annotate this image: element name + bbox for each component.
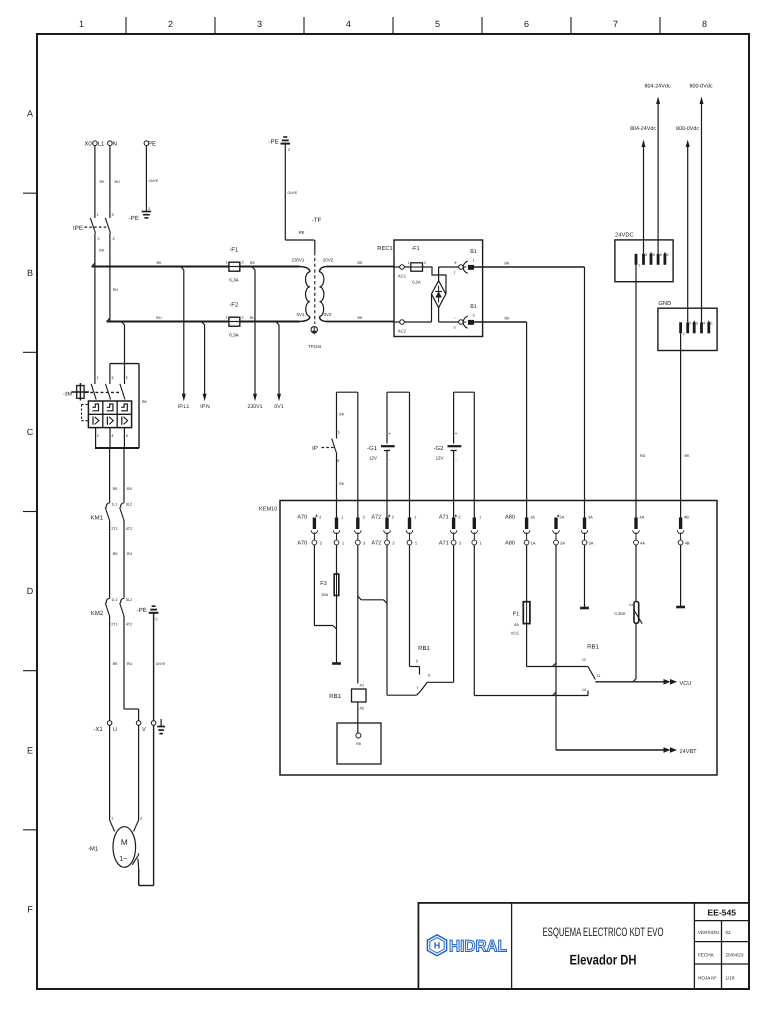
connector 24VDC [615, 232, 673, 282]
wire 24VBT [556, 749, 664, 751]
wire tap IP.N [201, 322, 204, 396]
svg-text:BK: BK [100, 180, 106, 184]
svg-text:20V2: 20V2 [323, 258, 334, 263]
svg-text:RB1: RB1 [587, 644, 599, 651]
svg-text:1L1: 1L1 [111, 598, 117, 602]
wire loop A72 [387, 392, 410, 517]
svg-text:8: 8 [702, 19, 707, 29]
svg-text:1: 1 [683, 332, 685, 336]
svg-text:VCC: VCC [511, 631, 520, 636]
svg-text:4T2: 4T2 [126, 527, 133, 531]
svg-text:+: + [455, 431, 458, 436]
wire AC2 to bridge [404, 294, 431, 322]
svg-text:3: 3 [112, 213, 114, 217]
svg-text:BU: BU [115, 180, 121, 184]
ground -PE (TF shield) [268, 137, 290, 152]
svg-text:-PE: -PE [137, 607, 147, 614]
connector pin A80-3A [581, 515, 594, 546]
relay contact RB1 12-11-14 [582, 644, 600, 693]
svg-text:M: M [121, 838, 128, 847]
svg-text:4: 4 [703, 322, 705, 326]
svg-text:VCU: VCU [680, 681, 692, 687]
svg-text:X0: X0 [84, 141, 92, 148]
breaker blade 1 [91, 384, 96, 400]
label KM2 [91, 610, 104, 617]
wire L1 down from X0 [95, 146, 105, 219]
wire A72-2 to contact 7 [387, 545, 420, 695]
terminal AC2 [394, 320, 407, 334]
wire breaker outputs to bar [95, 428, 139, 448]
svg-text:2: 2 [424, 261, 426, 265]
svg-text:U: U [113, 727, 117, 733]
svg-text:3: 3 [454, 326, 456, 330]
svg-text:IP.N: IP.N [200, 404, 210, 410]
svg-text:BU: BU [127, 552, 133, 556]
svg-text:0V1: 0V1 [274, 404, 283, 410]
fuse -F2 [225, 302, 243, 338]
svg-text:2: 2 [241, 261, 243, 265]
contactor KM1 pole 2 [120, 503, 133, 532]
contactor KM2 pole 1 [105, 598, 118, 627]
svg-text:2T1: 2T1 [111, 623, 118, 627]
svg-text:5: 5 [126, 376, 128, 380]
svg-text:4A: 4A [639, 515, 644, 520]
wire top bus 230V [92, 261, 300, 267]
svg-text:BK: BK [339, 482, 345, 486]
svg-text:KM2: KM2 [91, 610, 104, 617]
connector pin A70-3 [355, 515, 367, 546]
svg-text:02: 02 [726, 930, 732, 935]
svg-text:1: 1 [638, 264, 640, 268]
svg-text:AC1: AC1 [398, 274, 407, 279]
wire N down from X0 [110, 146, 120, 219]
svg-text:1: 1 [454, 271, 456, 275]
svg-text:6,3A: 6,3A [229, 333, 239, 338]
svg-text:804-24Vdc: 804-24Vdc [630, 126, 656, 132]
svg-text:4: 4 [346, 19, 351, 29]
svg-text:3A: 3A [588, 515, 593, 520]
svg-text:H: H [434, 941, 441, 951]
connector A71 labels [439, 515, 449, 547]
svg-text:A71: A71 [439, 541, 449, 547]
wire A71-1 to contact 14 [474, 545, 588, 696]
svg-text:HOJA Nº: HOJA Nº [698, 976, 717, 981]
switch IPE linkage [73, 225, 106, 232]
connector pin A70-2 [311, 514, 323, 545]
wire motor frame to PE [132, 853, 153, 885]
svg-text:VERSION: VERSION [698, 930, 719, 935]
svg-text:5: 5 [666, 253, 668, 257]
field VERSION 02 [698, 930, 731, 935]
terminator bar (3A leg) [580, 607, 589, 610]
terminal -X1 U [93, 721, 117, 733]
svg-text:7: 7 [613, 19, 618, 29]
svg-text:TP104: TP104 [308, 344, 321, 349]
svg-text:5: 5 [156, 618, 158, 622]
svg-text:-M1: -M1 [88, 846, 99, 853]
wire bridge + output [439, 261, 459, 281]
svg-text:RB1: RB1 [418, 645, 430, 652]
svg-text:6: 6 [524, 19, 529, 29]
connector pin A72-2 [384, 514, 396, 545]
wire tap IP.L1 [181, 267, 184, 396]
svg-text:BK: BK [357, 316, 363, 320]
wire secondary 0V2 to REC1 [327, 316, 395, 322]
wire F3 to terminator [336, 596, 338, 664]
svg-text:V: V [142, 727, 146, 733]
wire tap 0V1 [276, 322, 279, 396]
svg-text:1: 1 [225, 316, 227, 320]
svg-text:D: D [27, 586, 34, 596]
svg-text:ESQUEMA ELECTRICO KDT EVO: ESQUEMA ELECTRICO KDT EVO [543, 925, 664, 939]
switch IP [312, 431, 340, 518]
arrow 230V1 [247, 394, 262, 410]
bridge rectifier diode [432, 281, 446, 308]
svg-text:6: 6 [428, 674, 430, 678]
svg-text:BU: BU [113, 288, 119, 292]
svg-text:1: 1 [408, 261, 410, 265]
svg-text:B: B [27, 268, 33, 278]
svg-text:IP.L1: IP.L1 [178, 404, 190, 410]
svg-text:A71: A71 [439, 515, 449, 521]
connector pin A80-2A [553, 514, 566, 545]
wire A72-1 to contact 5 [410, 545, 420, 675]
wire bridge - output [439, 308, 459, 330]
svg-text:BK: BK [113, 487, 119, 491]
svg-text:4B: 4B [685, 541, 690, 546]
svg-text:4A: 4A [514, 622, 519, 627]
doc number EE-545 [707, 908, 736, 918]
svg-text:11: 11 [596, 674, 600, 678]
battery -G1 12V [367, 431, 395, 462]
breaker blade 2 [106, 384, 111, 400]
svg-text:GND: GND [658, 300, 671, 307]
svg-text:BK: BK [504, 317, 510, 321]
svg-text:2A: 2A [559, 515, 564, 520]
svg-text:-F1: -F1 [229, 247, 239, 254]
battery -G2 12V [433, 431, 461, 462]
svg-text:3A: 3A [589, 541, 594, 546]
svg-text:6,3A: 6,3A [412, 280, 421, 285]
svg-text:1: 1 [97, 376, 99, 380]
svg-text:-TF: -TF [312, 217, 322, 224]
wire KM1 to KM2 phase V [124, 521, 133, 598]
connector pin A70-1 [333, 515, 345, 546]
svg-text:A72: A72 [371, 515, 381, 521]
wire contact 11 to VCU [595, 678, 664, 682]
wire GND-4 up [701, 103, 703, 322]
svg-text:GNYE: GNYE [156, 662, 166, 666]
svg-text:-: - [454, 316, 456, 322]
svg-text:A80: A80 [505, 515, 515, 521]
motor -M1 [88, 827, 136, 868]
motor breaker -3M [63, 383, 132, 428]
breaker pin labels bottom [97, 434, 128, 438]
svg-text:E: E [27, 745, 33, 755]
rectifier box REC1 [377, 240, 482, 337]
svg-text:10A: 10A [321, 592, 328, 597]
controller box KEM10 [259, 501, 717, 776]
wire PE down from X0 [146, 146, 158, 212]
svg-text:2: 2 [689, 322, 691, 326]
svg-text:-G1: -G1 [367, 445, 378, 452]
svg-text:A1: A1 [360, 684, 365, 688]
ground (X1 PE) [156, 719, 165, 734]
arrow 804-24Vdc (upper) [644, 84, 670, 105]
fuse F3 10A [320, 545, 339, 597]
svg-text:AC2: AC2 [398, 329, 407, 334]
svg-text:24VBT: 24VBT [680, 749, 698, 755]
svg-text:C: C [27, 427, 34, 437]
relay coil RB1 [329, 684, 366, 711]
svg-text:7: 7 [416, 687, 418, 691]
svg-text:2: 2 [140, 817, 142, 821]
terminal -X1 V [136, 721, 146, 733]
terminal X0 L1 [84, 141, 105, 148]
svg-text:12: 12 [582, 658, 586, 662]
svg-text:0V2: 0V2 [324, 312, 332, 317]
breaker blade 3 [120, 384, 125, 400]
svg-text:1: 1 [225, 261, 227, 265]
wire junction A70-3 to A72-2 [358, 596, 387, 603]
svg-text:1/18: 1/18 [726, 976, 735, 981]
wire X1 PE down [153, 725, 155, 885]
svg-text:3: 3 [653, 253, 655, 257]
wire 3A to terminator [584, 545, 586, 608]
svg-text:+: + [388, 431, 391, 436]
wire 24VDC-4 up [657, 103, 659, 254]
arrow 800-0Vdc (upper) [689, 84, 712, 105]
svg-text:BK: BK [504, 262, 510, 266]
wire N tap to breaker bracket [121, 322, 124, 364]
svg-text:1A: 1A [531, 541, 536, 546]
contactor KM2 pole 2 [120, 598, 133, 627]
svg-text:GNYE: GNYE [288, 191, 298, 195]
arrow VCU [664, 679, 692, 687]
connector A72 labels [371, 515, 381, 547]
title text ESQUEMA ELECTRICO KDT EVO [543, 925, 664, 939]
wire 24VDC-2 up [643, 146, 645, 254]
wire A70-2 to F3 leg [314, 545, 336, 629]
arrow 0V1 [274, 394, 283, 410]
contactor KM1 pole 1 [105, 503, 118, 532]
svg-text:BU: BU [156, 316, 162, 320]
svg-text:BK: BK [685, 454, 691, 458]
connector pin A80-4B [677, 515, 690, 546]
svg-text:2: 2 [168, 19, 173, 29]
svg-text:PE: PE [299, 230, 305, 235]
svg-text:F3: F3 [320, 581, 327, 587]
wire KM1 to KM2 phase U [110, 521, 119, 598]
box R8 [337, 723, 381, 764]
svg-text:B1: B1 [470, 304, 477, 310]
svg-text:2: 2 [645, 253, 647, 257]
wire secondary 20V2 to REC1 [327, 261, 395, 267]
svg-text:6,3A: 6,3A [229, 278, 239, 283]
svg-text:BK: BK [99, 249, 105, 253]
svg-text:800-0Vdc: 800-0Vdc [676, 126, 699, 132]
wire X1 V to motor [134, 725, 143, 831]
svg-text:2T1: 2T1 [111, 527, 118, 531]
svg-text:4: 4 [660, 253, 662, 257]
svg-text:4: 4 [111, 434, 113, 438]
terminator bar (F3 leg) [332, 662, 341, 665]
svg-text:2: 2 [288, 148, 290, 152]
ground -PE (X0 PE) [129, 207, 152, 222]
svg-text:2: 2 [97, 434, 99, 438]
wire loop A70 1-3 [337, 392, 358, 517]
transformer -TF [292, 217, 334, 324]
svg-text:0V1: 0V1 [297, 312, 305, 317]
svg-text:3: 3 [111, 376, 113, 380]
svg-text:BK: BK [113, 662, 119, 666]
wire PE to transformer core [285, 144, 314, 240]
wire 24VDC-1 down to pin 4A [636, 265, 646, 518]
svg-text:A70: A70 [297, 541, 307, 547]
svg-text:2: 2 [98, 237, 100, 241]
wire bottom bus 0V [107, 316, 300, 322]
svg-text:B1: B1 [470, 249, 477, 255]
svg-text:6: 6 [337, 459, 339, 463]
svg-text:BK: BK [142, 400, 148, 404]
connector B1 pin 3 [459, 304, 477, 328]
svg-text:20/04/23: 20/04/23 [726, 953, 744, 958]
svg-text:2A: 2A [560, 541, 565, 546]
arrow 800-0Vdc (lower) [676, 126, 699, 147]
ground -PE (motor) [137, 606, 159, 621]
wire A70-3 to relay coil [357, 545, 359, 684]
svg-text:EE-545: EE-545 [707, 908, 736, 918]
svg-text:804-24Vdc: 804-24Vdc [644, 84, 670, 90]
wire coil to R8 box [357, 702, 359, 733]
switch IPE pole 2 [105, 218, 114, 241]
svg-text:0,35A: 0,35A [615, 611, 626, 616]
connector pin A71-1 [471, 515, 483, 546]
svg-text:A80: A80 [505, 541, 515, 547]
wire L1 IPE to bus and breaker [92, 233, 105, 384]
terminal X0 N [108, 141, 117, 148]
svg-text:KM1: KM1 [91, 515, 104, 522]
switch IPE pole 1 [90, 218, 99, 241]
breaker 0,35A [615, 545, 643, 678]
relay contact RB1 5-6-7 [416, 645, 431, 691]
terminator bar (4B leg) [676, 606, 685, 609]
shield terminal TP104 [308, 327, 321, 350]
wire 2A down to 24VBT [555, 545, 557, 750]
svg-text:1~: 1~ [119, 854, 127, 863]
connector pin A80-4A [633, 515, 646, 546]
svg-text:A2: A2 [360, 707, 365, 711]
terminal -X1 PE [151, 721, 156, 726]
svg-text:BK: BK [113, 552, 119, 556]
wire X1 U to motor [110, 725, 115, 831]
svg-text:6: 6 [126, 434, 128, 438]
svg-text:5: 5 [710, 322, 712, 326]
svg-text:5: 5 [435, 19, 440, 29]
svg-text:1: 1 [79, 19, 84, 29]
wire B1-3 to pin 1A [474, 317, 527, 518]
connector pin A71-2 [450, 514, 462, 545]
svg-text:HIDRAL: HIDRAL [449, 938, 507, 956]
connector pin A80-1A [523, 515, 536, 546]
arrow 804-24Vdc (lower) [630, 126, 656, 147]
field FECHA 20/04/23 [698, 953, 744, 958]
field HOJA 1/18 [698, 976, 735, 981]
svg-text:3L2: 3L2 [126, 598, 132, 602]
svg-text:3: 3 [257, 19, 262, 29]
svg-text:24VDC: 24VDC [615, 232, 634, 239]
svg-text:A72: A72 [371, 541, 381, 547]
svg-text:14: 14 [582, 688, 586, 692]
wire KM2 to X1 U [110, 616, 119, 721]
svg-text:REC1: REC1 [377, 245, 392, 252]
svg-text:Elevador DH: Elevador DH [570, 951, 637, 967]
svg-text:1: 1 [148, 207, 150, 211]
svg-text:A70: A70 [297, 515, 307, 521]
arrow IP.L1 [178, 394, 190, 410]
svg-text:800-0Vdc: 800-0Vdc [689, 84, 712, 90]
svg-text:1: 1 [111, 817, 113, 821]
wire breaker N bracket [110, 364, 148, 448]
wire GND-1 down to pin 4B [681, 333, 690, 517]
arrow 24VBT [664, 747, 698, 755]
svg-text:GNYE: GNYE [149, 179, 159, 183]
svg-text:3L2: 3L2 [126, 503, 132, 507]
svg-text:5: 5 [416, 660, 418, 664]
svg-text:BU: BU [127, 662, 133, 666]
terminal X0 PE [144, 141, 156, 148]
wire 4B to terminator [680, 545, 682, 607]
connector B1 pin 1 [459, 249, 477, 273]
svg-text:N: N [113, 141, 117, 148]
connector pin A72-1 [406, 515, 418, 546]
svg-text:KEM10: KEM10 [259, 507, 277, 513]
wire KM2 to X1 V [124, 616, 139, 721]
svg-text:230V1: 230V1 [247, 404, 262, 410]
breaker pin labels top [97, 376, 128, 380]
svg-text:L1: L1 [98, 141, 105, 148]
connector A80 labels [505, 515, 515, 547]
svg-text:4A: 4A [640, 541, 645, 546]
svg-text:-PE: -PE [129, 215, 139, 222]
svg-text:-F2: -F2 [229, 302, 239, 309]
svg-text:FECHA: FECHA [698, 953, 715, 958]
label KM1 [91, 515, 104, 522]
wire F1 to contact 12 [527, 624, 588, 667]
wire GND-2 up [687, 146, 689, 322]
svg-text:RD: RD [640, 454, 646, 458]
wire tap 230V1 [252, 267, 255, 396]
svg-text:1A: 1A [530, 515, 535, 520]
fuse -F1 (REC1) [404, 246, 426, 285]
svg-text:-PE: -PE [268, 139, 278, 146]
svg-text:BK: BK [250, 261, 256, 265]
svg-text:-F1: -F1 [411, 246, 419, 252]
svg-text:1L1: 1L1 [111, 503, 117, 507]
title text Elevador DH [570, 951, 637, 967]
svg-text:4: 4 [113, 237, 115, 241]
svg-text:BK: BK [339, 413, 345, 417]
wire phase V breaker to KM1 [124, 448, 133, 502]
svg-text:R8: R8 [356, 742, 361, 746]
wire AC1 to bridge [423, 267, 447, 294]
svg-text:PE: PE [148, 141, 156, 148]
svg-text:2: 2 [241, 316, 243, 320]
svg-text:BK: BK [156, 261, 162, 265]
title block [418, 903, 749, 989]
wire PE to X1 [154, 613, 167, 721]
svg-text:-X1: -X1 [93, 726, 103, 733]
